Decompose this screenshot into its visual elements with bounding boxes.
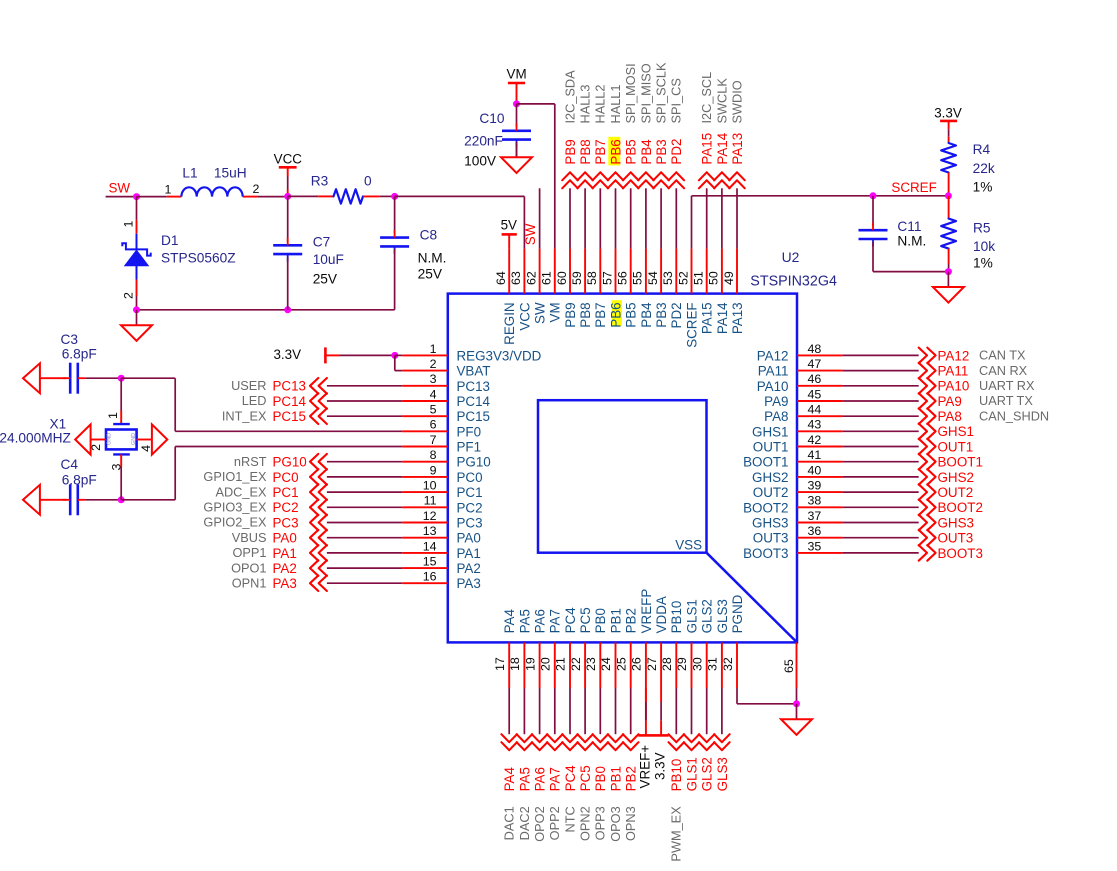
wire (175, 430, 402, 432)
IC pin 15 (PA2) left (402, 555, 481, 577)
IC pin 13 (PA0) left (402, 524, 481, 546)
svg-text:1: 1 (165, 182, 172, 196)
svg-text:SPI_SCLK: SPI_SCLK (654, 62, 669, 123)
svg-text:14: 14 (423, 539, 437, 553)
wire (pin 14) (327, 552, 402, 554)
hierarchical sheet arrow (X1 pin 2) (75, 424, 90, 454)
ground (933, 272, 964, 303)
power symbol VCC (274, 152, 303, 197)
svg-text:GND: GND (106, 433, 112, 445)
svg-text:GHS3: GHS3 (752, 516, 788, 531)
capacitor C10 (464, 104, 531, 168)
svg-text:32: 32 (721, 657, 735, 671)
IC pin 24 (PB1) bottom (599, 608, 623, 688)
svg-text:57: 57 (600, 271, 614, 285)
svg-text:59: 59 (570, 271, 584, 285)
hierarchical label PC2 (273, 500, 327, 516)
wire (pin 49) (736, 188, 738, 248)
svg-text:R3: R3 (311, 174, 329, 189)
junction (945, 192, 952, 199)
IC pin 62 (SW) top (524, 249, 547, 324)
wire (pin 60) (569, 188, 571, 248)
hierarchical label PB7 (593, 139, 609, 188)
svg-text:PB0: PB0 (593, 766, 608, 791)
wire (175, 446, 402, 448)
svg-text:7: 7 (430, 433, 437, 447)
junction (133, 193, 140, 200)
svg-text:PA2: PA2 (273, 561, 297, 576)
svg-text:OUT2: OUT2 (938, 485, 974, 500)
svg-text:PC2: PC2 (457, 500, 483, 515)
hierarchical label PC1 (273, 484, 327, 500)
wire (873, 271, 948, 273)
hierarchical label PC15 (273, 408, 327, 424)
svg-text:VCC: VCC (517, 302, 532, 331)
svg-text:13: 13 (423, 524, 437, 538)
hierarchical label PA2 (273, 560, 327, 576)
svg-text:PB2: PB2 (624, 766, 639, 791)
wire (pin 43) (843, 430, 919, 432)
IC pin 32 (PGND) bottom (721, 594, 745, 688)
svg-text:REGIN: REGIN (502, 302, 517, 344)
wire (394, 355, 396, 370)
svg-text:28: 28 (660, 657, 674, 671)
svg-text:GHS1: GHS1 (752, 424, 788, 439)
svg-text:OUT1: OUT1 (753, 440, 789, 455)
svg-text:C11: C11 (897, 219, 921, 234)
crystal X1 24.000MHZ (0, 378, 153, 500)
svg-text:PB1: PB1 (608, 608, 623, 633)
svg-text:PA12: PA12 (938, 348, 970, 363)
wire (pin 41) (843, 461, 919, 463)
junction (513, 100, 520, 107)
IC pin 40 (GHS2) right (752, 463, 843, 485)
wire (pin 53) (675, 188, 677, 248)
IC pin 30 (GLS2) bottom (690, 599, 714, 688)
svg-text:C3: C3 (61, 332, 79, 347)
svg-text:GPIO1_EX: GPIO1_EX (203, 469, 267, 484)
IC pin 8 (PG10) left (402, 448, 491, 470)
svg-text:24.000MHZ: 24.000MHZ (0, 431, 71, 446)
junction (118, 496, 125, 503)
capacitor C7 (273, 196, 344, 309)
hierarchical label PA1 (273, 545, 327, 561)
svg-text:VM: VM (507, 66, 527, 81)
IC U2 diagonal to pad corner (707, 553, 798, 643)
wire (517, 103, 555, 105)
svg-text:PB3: PB3 (654, 302, 669, 327)
hierarchical sheet arrow (C3 left) (23, 363, 40, 393)
svg-text:GLS3: GLS3 (715, 757, 730, 791)
wire (106, 196, 137, 198)
svg-text:SW: SW (533, 302, 548, 324)
svg-text:INT_EX: INT_EX (222, 408, 267, 423)
svg-text:PC4: PC4 (563, 765, 578, 792)
svg-text:PWM_EX: PWM_EX (669, 806, 684, 862)
svg-text:ADC_EX: ADC_EX (215, 484, 267, 499)
IC pin 59 (PB8) top (570, 249, 593, 328)
svg-text:26: 26 (630, 657, 644, 671)
svg-text:GPIO3_EX: GPIO3_EX (203, 500, 267, 515)
svg-text:10uF: 10uF (313, 252, 344, 267)
IC pin 26 (VREFP) bottom (630, 589, 654, 688)
IC pin 55 (PB4) top (631, 249, 654, 328)
svg-text:SW: SW (523, 223, 538, 245)
svg-text:39: 39 (808, 479, 822, 493)
svg-text:PC4: PC4 (563, 607, 578, 634)
svg-text:OPP2: OPP2 (547, 806, 562, 840)
power symbol 3.3V (pin 27) (653, 688, 669, 780)
svg-text:UART RX: UART RX (979, 378, 1035, 393)
wire (pin 4) (327, 400, 402, 402)
wire (pin 47) (843, 370, 919, 372)
svg-text:SPI_MISO: SPI_MISO (638, 63, 653, 123)
svg-text:PA14: PA14 (715, 132, 730, 164)
hierarchical label PB1 (608, 734, 624, 791)
IC pin 5 (PC15) left (402, 403, 490, 425)
svg-text:SPI_CS: SPI_CS (669, 78, 684, 123)
svg-text:X1: X1 (50, 417, 67, 432)
IC pin 54 (PB3) top (646, 249, 669, 328)
hierarchical label GHS1 (919, 424, 974, 440)
svg-text:PA7: PA7 (548, 767, 563, 791)
svg-text:CAN TX: CAN TX (979, 348, 1026, 363)
svg-text:PA12: PA12 (757, 348, 789, 363)
svg-text:10k: 10k (973, 239, 995, 254)
IC pin 1 (REG3V3/VDD) left (402, 342, 541, 364)
svg-text:PB8: PB8 (578, 139, 593, 164)
IC pin 47 (PA11) right (758, 357, 843, 379)
svg-text:PA10: PA10 (757, 379, 789, 394)
svg-text:OUT1: OUT1 (938, 439, 974, 454)
svg-text:45: 45 (808, 387, 822, 401)
svg-text:3.3V: 3.3V (273, 347, 301, 362)
wire (pin 40) (843, 476, 919, 478)
hierarchical label PC13 (273, 378, 327, 394)
svg-text:BOOT3: BOOT3 (743, 546, 788, 561)
svg-text:OPO1: OPO1 (231, 560, 266, 575)
wire (pin 58) (599, 188, 601, 248)
hierarchical label GLS3 (714, 734, 730, 791)
svg-text:PA0: PA0 (273, 531, 297, 546)
svg-text:49: 49 (722, 271, 736, 285)
svg-text:PA8: PA8 (764, 409, 788, 424)
wire (pin 37) (843, 522, 919, 524)
svg-text:GHS3: GHS3 (938, 515, 974, 530)
IC pin 48 (PA12) right (757, 342, 843, 364)
svg-text:LED: LED (242, 393, 267, 408)
svg-text:PB10: PB10 (669, 601, 684, 634)
svg-text:PA15: PA15 (700, 133, 715, 165)
svg-text:PG10: PG10 (457, 455, 491, 470)
svg-text:PA5: PA5 (517, 609, 532, 633)
svg-text:PC1: PC1 (273, 485, 299, 500)
wire (pin 8) (327, 461, 402, 463)
svg-text:PA0: PA0 (457, 531, 481, 546)
svg-text:2: 2 (430, 357, 437, 371)
junction (133, 306, 140, 313)
wire (pin 9) (327, 476, 402, 478)
svg-text:1%: 1% (973, 256, 993, 271)
svg-text:C10: C10 (479, 111, 504, 126)
wire (pin 25) (630, 688, 632, 734)
hierarchical label PB3 (653, 139, 669, 188)
svg-text:L1: L1 (182, 166, 197, 181)
hierarchical label PB8 (577, 139, 593, 188)
svg-text:STPS0560Z: STPS0560Z (161, 250, 236, 265)
svg-text:2: 2 (122, 292, 136, 299)
wire (pin 11) (327, 506, 402, 508)
wire (pin 30) (706, 688, 708, 734)
wire (pin 19) (539, 688, 541, 734)
IC pin 25 (PB2) bottom (614, 608, 638, 688)
hierarchical label PG10 (273, 454, 327, 470)
wire (121, 499, 175, 501)
IC pin 6 (PF0) left (402, 418, 481, 440)
svg-text:OPP1: OPP1 (232, 545, 266, 560)
svg-text:PC14: PC14 (273, 394, 307, 409)
svg-text:31: 31 (706, 657, 720, 671)
hierarchical sheet arrow (X1 pin 4) (152, 424, 167, 454)
svg-text:PA1: PA1 (457, 546, 481, 561)
wire (pin 35) (843, 552, 919, 554)
junction (870, 192, 877, 199)
wire (554, 104, 556, 249)
svg-text:GLS3: GLS3 (715, 599, 730, 633)
power symbol VREF+ (pin 26) (638, 688, 654, 788)
hierarchical label PA8 (919, 408, 962, 424)
svg-text:43: 43 (808, 418, 822, 432)
svg-text:OUT2: OUT2 (753, 485, 789, 500)
svg-text:VSS: VSS (675, 538, 702, 553)
svg-text:PA1: PA1 (273, 546, 297, 561)
svg-text:GLS2: GLS2 (700, 757, 715, 791)
ground (781, 704, 812, 735)
svg-text:5V: 5V (501, 218, 517, 233)
wire (pin 10) (327, 491, 402, 493)
wire (pin 5) (327, 415, 402, 417)
wire (pin 57) (615, 188, 617, 248)
power symbol VM (507, 66, 527, 104)
wire (pin 56) (630, 188, 632, 248)
wire (pin 39) (843, 491, 919, 493)
wire (pin 36) (843, 537, 919, 539)
svg-text:22k: 22k (973, 161, 995, 176)
svg-text:44: 44 (808, 403, 822, 417)
hierarchical label PA12 (919, 348, 970, 364)
svg-text:OPP3: OPP3 (593, 806, 608, 840)
IC pin 31 (GLS3) bottom (706, 599, 730, 688)
svg-text:SWDIO: SWDIO (729, 80, 744, 123)
svg-text:PA15: PA15 (700, 302, 715, 334)
wire (pin 42) (843, 446, 919, 448)
svg-text:SW: SW (109, 181, 131, 196)
hierarchical label PC0 (273, 469, 327, 485)
svg-text:60: 60 (555, 271, 569, 285)
svg-text:4: 4 (139, 445, 153, 452)
hierarchical label PA4 (501, 734, 517, 791)
junction (391, 193, 398, 200)
svg-text:30: 30 (690, 657, 704, 671)
IC U2 inner square (538, 400, 707, 553)
wire (pin 55) (645, 188, 647, 248)
wire (pin 29) (691, 688, 693, 734)
svg-text:6.8pF: 6.8pF (62, 472, 97, 487)
capacitor C11 (859, 196, 927, 272)
wire (pin 15) (327, 567, 402, 569)
wire (737, 703, 797, 705)
wire (257, 196, 287, 198)
svg-text:GND: GND (131, 433, 137, 445)
IC pin 36 (OUT3) right (753, 524, 843, 546)
svg-text:VCC: VCC (274, 152, 303, 167)
IC pin 20 (PA7) bottom (539, 609, 563, 688)
hierarchical label PA14 (714, 132, 730, 188)
IC pin 42 (OUT1) right (753, 433, 843, 455)
svg-text:C8: C8 (420, 227, 438, 242)
svg-text:PB5: PB5 (624, 302, 639, 327)
svg-text:OPO3: OPO3 (608, 806, 623, 841)
svg-text:C4: C4 (61, 457, 79, 472)
svg-text:OUT3: OUT3 (753, 531, 789, 546)
hierarchical label PD2 (669, 139, 685, 189)
hierarchical label OUT2 (919, 484, 974, 500)
svg-text:42: 42 (808, 433, 822, 447)
svg-text:CAN_SHDN: CAN_SHDN (979, 408, 1049, 423)
svg-text:OPN1: OPN1 (232, 576, 267, 591)
svg-text:VREFP: VREFP (639, 589, 654, 634)
svg-text:BOOT1: BOOT1 (743, 455, 788, 470)
svg-text:15uH: 15uH (214, 166, 247, 181)
svg-text:GPIO2_EX: GPIO2_EX (203, 515, 267, 530)
power symbol 3.3V (VDD) (273, 347, 394, 364)
svg-text:PA3: PA3 (457, 576, 481, 591)
svg-text:PA13: PA13 (730, 302, 745, 334)
svg-text:PB3: PB3 (654, 139, 669, 164)
hierarchical label OUT3 (919, 530, 974, 546)
svg-text:PC5: PC5 (578, 765, 593, 791)
svg-text:PC15: PC15 (273, 409, 307, 424)
svg-text:N.M.: N.M. (897, 233, 926, 248)
wire (174, 447, 176, 500)
wire (395, 370, 402, 372)
svg-text:4: 4 (430, 387, 437, 401)
svg-text:3.3V: 3.3V (653, 752, 668, 780)
svg-text:PB4: PB4 (639, 302, 654, 328)
IC pin 38 (BOOT2) right (743, 494, 842, 516)
svg-text:PA4: PA4 (502, 609, 517, 634)
junction (284, 306, 291, 313)
wire (523, 196, 525, 248)
svg-text:PC0: PC0 (273, 470, 299, 485)
wire (pin 51) (706, 188, 708, 248)
svg-text:55: 55 (631, 271, 645, 285)
svg-text:27: 27 (645, 657, 659, 671)
wire (pin 20) (554, 688, 556, 734)
svg-text:OPN2: OPN2 (578, 806, 593, 841)
svg-text:PF0: PF0 (457, 424, 482, 439)
ground (121, 310, 152, 341)
svg-text:64: 64 (494, 271, 508, 285)
capacitor C3 (40, 332, 121, 394)
svg-text:12: 12 (423, 509, 437, 523)
svg-text:54: 54 (646, 271, 660, 285)
svg-text:BOOT1: BOOT1 (938, 455, 983, 470)
wire (pin 22) (584, 688, 586, 734)
resistor R4 (941, 142, 995, 196)
svg-text:47: 47 (808, 357, 822, 371)
svg-text:PA11: PA11 (938, 364, 969, 379)
svg-text:OUT3: OUT3 (938, 531, 974, 546)
svg-text:1%: 1% (973, 179, 993, 194)
svg-text:PD2: PD2 (669, 139, 684, 165)
IC pin 16 (PA3) left (402, 570, 481, 592)
junction (118, 375, 125, 382)
svg-text:HALL2: HALL2 (593, 85, 608, 124)
svg-text:220nF: 220nF (464, 133, 503, 148)
svg-text:PB2: PB2 (624, 608, 639, 633)
hierarchical label GLS1 (684, 734, 700, 791)
IC pin 63 (VCC) top (509, 249, 532, 331)
svg-text:62: 62 (524, 271, 538, 285)
IC pin 49 (PA13) top (722, 249, 745, 335)
IC pin 50 (PA14) top (707, 249, 730, 335)
svg-text:56: 56 (616, 271, 630, 285)
svg-text:PB7: PB7 (593, 139, 608, 164)
svg-text:25: 25 (614, 657, 628, 671)
wire (395, 195, 525, 197)
svg-text:22: 22 (569, 657, 583, 671)
power symbol 5V (501, 218, 517, 249)
svg-text:PB1: PB1 (608, 766, 623, 791)
wire (pin 44) (843, 415, 919, 417)
svg-text:25V: 25V (418, 267, 443, 282)
IC pin 45 (PA9) right (764, 387, 842, 409)
svg-text:SWCLK: SWCLK (714, 78, 729, 124)
svg-text:38: 38 (808, 494, 822, 508)
IC pin 51 (PA15) top (692, 249, 715, 335)
svg-text:10: 10 (423, 479, 437, 493)
wire (395, 354, 402, 356)
IC pin 18 (PA5) bottom (508, 609, 532, 688)
hierarchical label PA6 (532, 734, 548, 791)
svg-text:6.8pF: 6.8pF (62, 347, 97, 362)
svg-text:R5: R5 (973, 220, 991, 235)
svg-text:50: 50 (707, 271, 721, 285)
hierarchical label PA5 (517, 734, 533, 791)
wire (pin 16) (327, 582, 402, 584)
svg-text:GHS1: GHS1 (938, 424, 974, 439)
IC pin 28 (PB10) bottom (660, 601, 684, 688)
svg-text:PA6: PA6 (533, 767, 548, 791)
wire (539, 188, 541, 248)
wire (pin 17) (508, 688, 510, 734)
svg-text:PC14: PC14 (457, 394, 491, 409)
svg-text:0: 0 (364, 174, 372, 189)
IC pin 2 (VBAT) left (402, 357, 490, 379)
wire (pin 12) (327, 522, 402, 524)
svg-text:PG10: PG10 (273, 455, 307, 470)
svg-text:PB7: PB7 (593, 302, 608, 327)
svg-text:NTC: NTC (562, 806, 577, 832)
svg-text:I2C_SDA: I2C_SDA (562, 70, 577, 124)
IC pin 29 (GLS1) bottom (675, 599, 699, 688)
svg-text:35: 35 (808, 539, 822, 553)
svg-text:GHS2: GHS2 (752, 470, 788, 485)
svg-text:U2: U2 (782, 249, 800, 265)
hierarchical label OUT1 (919, 439, 974, 455)
hierarchical label PC4 (562, 734, 578, 791)
